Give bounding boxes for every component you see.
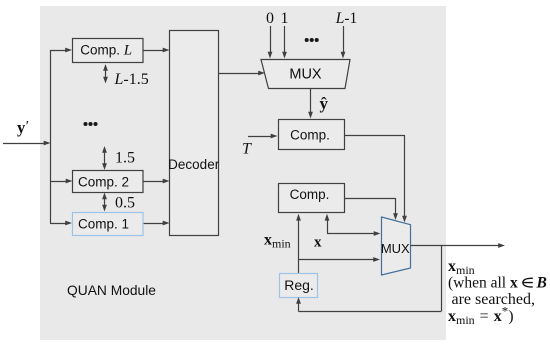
svg-text:QUAN Module: QUAN Module [67,283,156,298]
svg-text:Comp.: Comp. [290,187,330,202]
svg-text:1.5: 1.5 [115,150,135,167]
svg-text:Comp.: Comp. [290,128,330,143]
svg-text:L-1: L-1 [335,10,358,27]
svg-text:Comp. L: Comp. L [80,43,132,59]
svg-text:MUX: MUX [289,67,322,83]
svg-text:Decoder: Decoder [168,157,220,172]
svg-text:Comp. 1: Comp. 1 [78,217,129,232]
svg-text:MUX: MUX [381,241,410,256]
svg-text:Reg.: Reg. [284,277,314,293]
svg-text:ŷ: ŷ [320,94,329,113]
svg-text:(when all x: (when all x [448,275,518,292]
svg-text:Comp. 2: Comp. 2 [78,175,129,190]
svg-text:0: 0 [266,10,274,27]
svg-text:x: x [314,235,322,251]
svg-text:L-1.5: L-1.5 [114,71,149,88]
svg-text:y′: y′ [17,118,29,137]
svg-text:T: T [242,141,252,158]
svg-text:are searched,: are searched, [452,291,536,308]
svg-text:B: B [536,275,547,292]
svg-text:0.5: 0.5 [115,195,135,212]
svg-text:1: 1 [281,10,289,27]
